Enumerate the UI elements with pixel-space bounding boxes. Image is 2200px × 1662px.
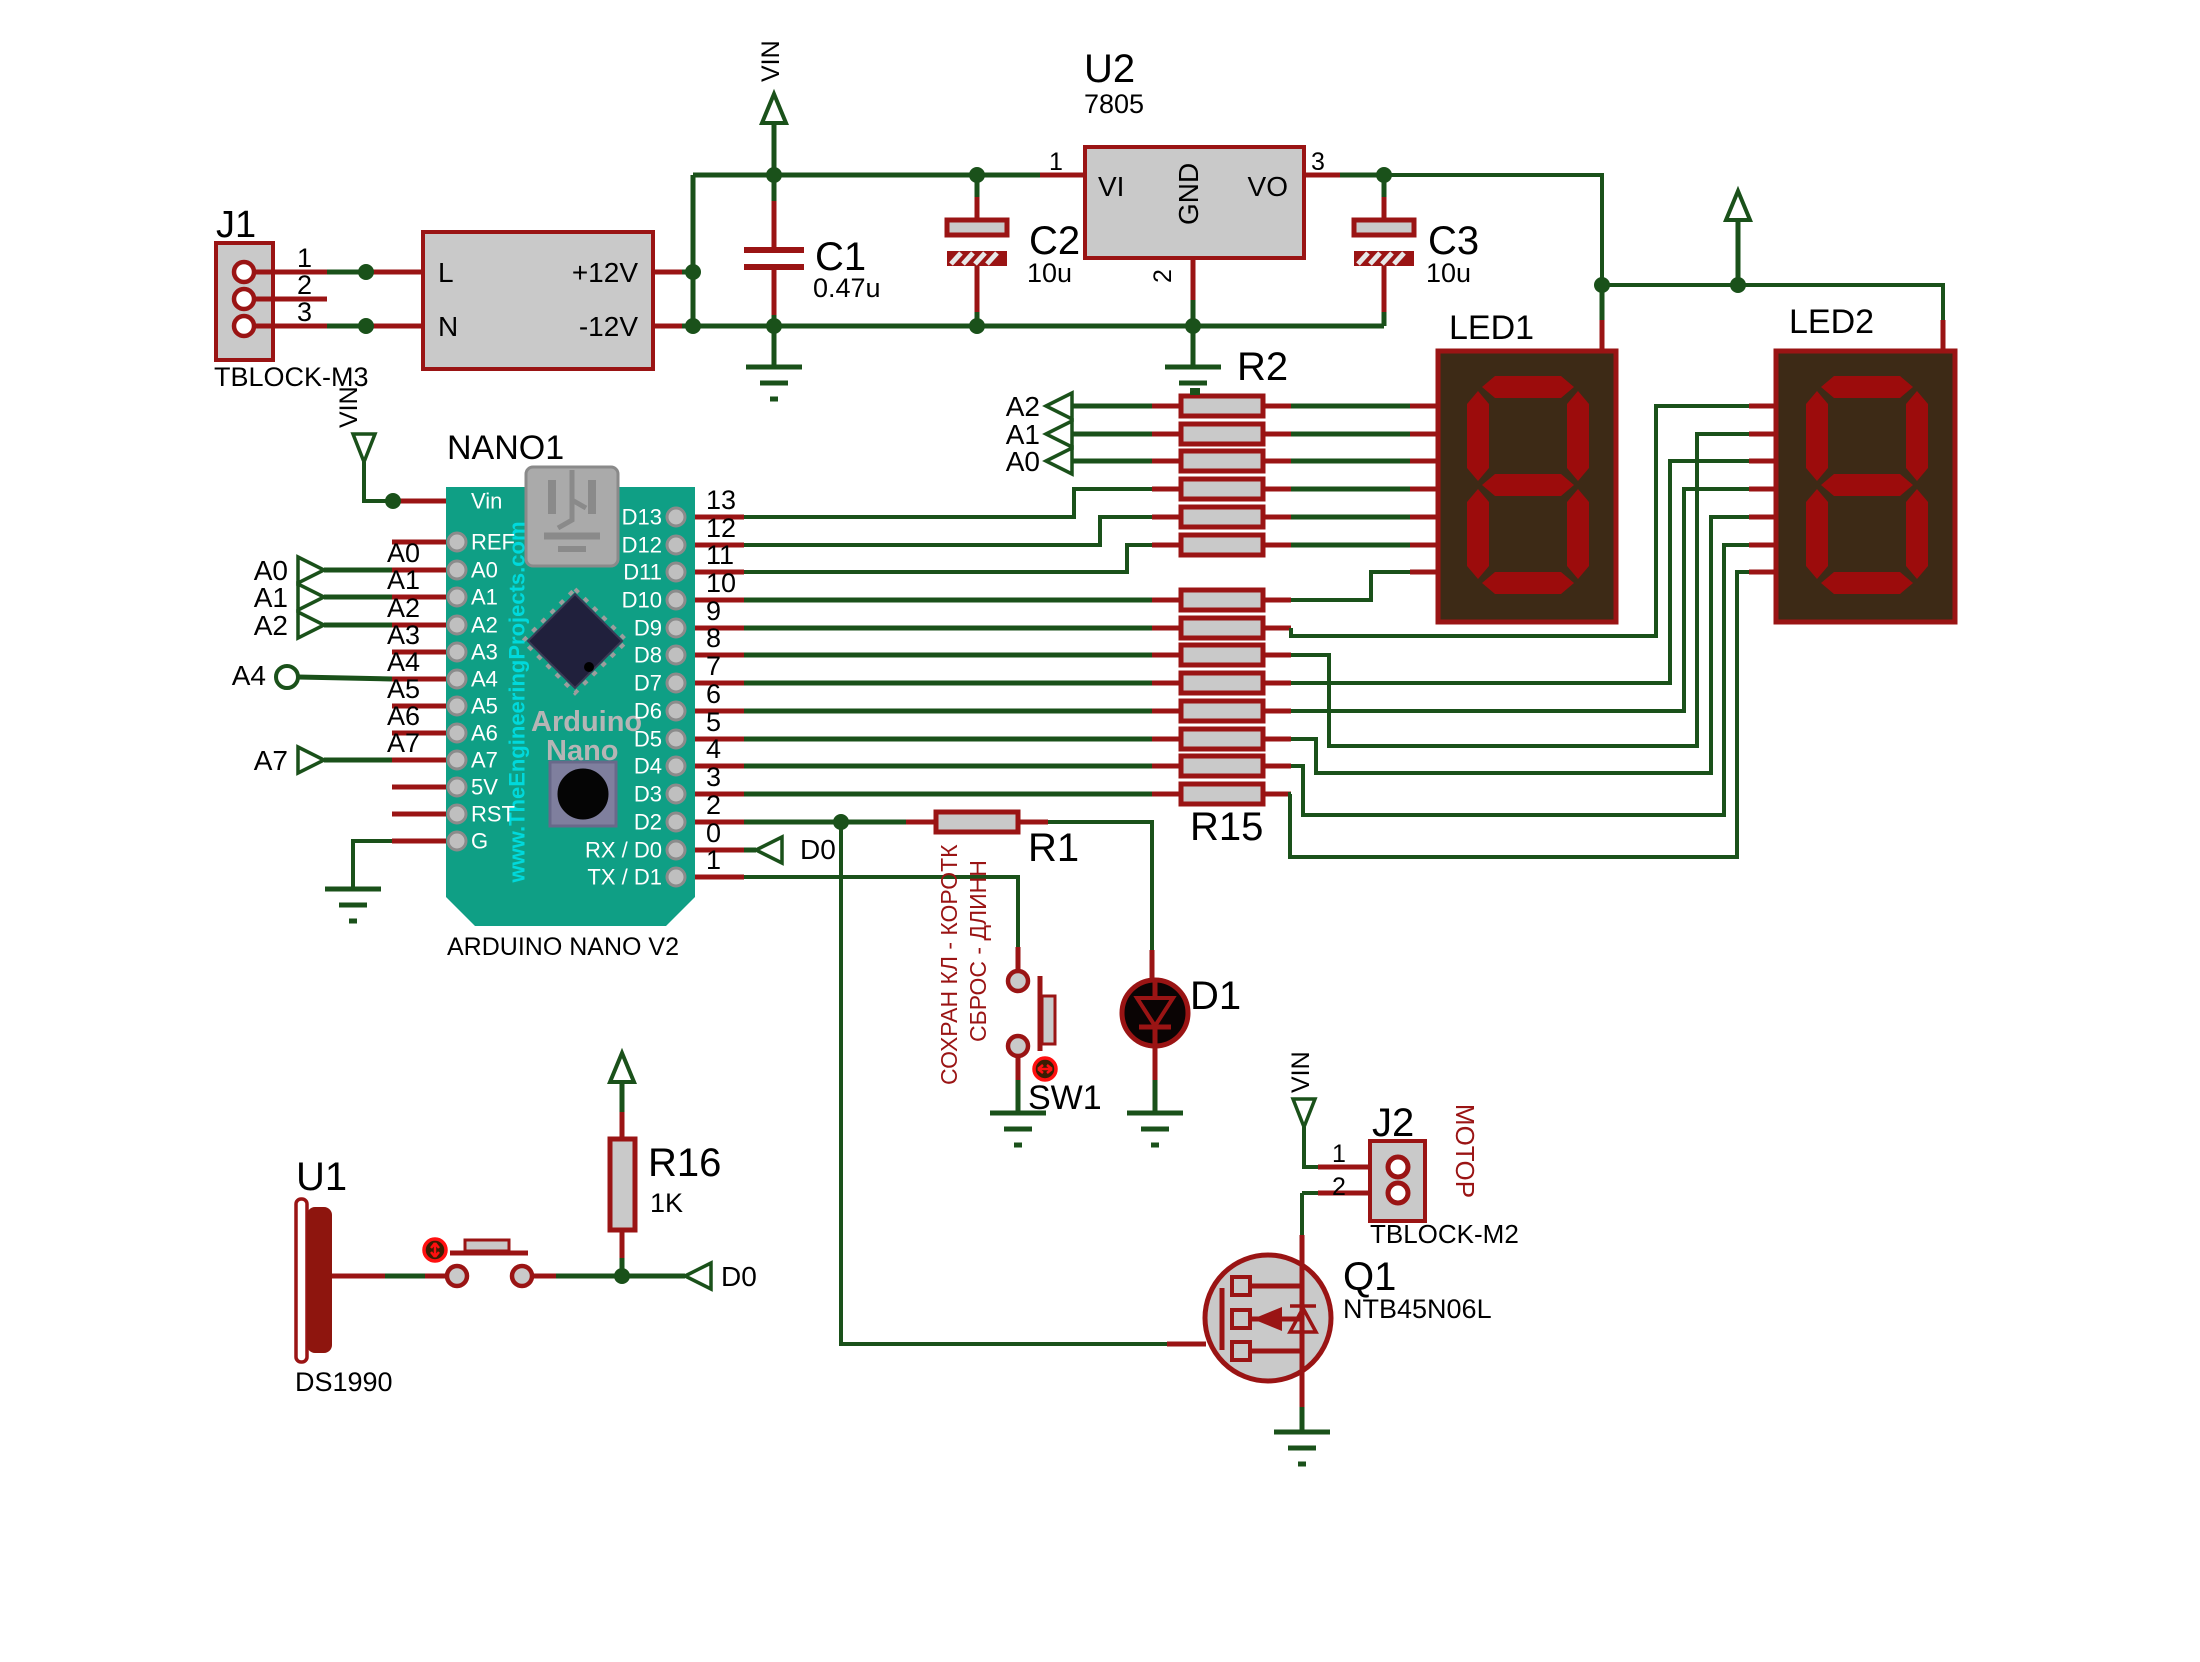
reset button graphic [550, 762, 616, 826]
switch (U1 contact) [447, 1266, 467, 1286]
display LED1 [1438, 351, 1616, 622]
svg-text:REF: REF [471, 530, 515, 555]
svg-text:8: 8 [706, 623, 721, 653]
terminal A1 (nano) [298, 584, 324, 610]
svg-text:A0: A0 [1006, 446, 1040, 477]
resistor R2 element 6 [1152, 543, 1181, 548]
wire R15-3 to LED2 seg b [1291, 434, 1749, 746]
terminal A1 [1046, 421, 1072, 447]
junction C2 top [969, 167, 985, 183]
wire R1 to D1 [1048, 822, 1152, 950]
svg-text:ARDUINO NANO V2: ARDUINO NANO V2 [447, 933, 679, 961]
wire R15-2 to LED2 seg a [1291, 406, 1749, 636]
Arduino Nano board NANO1 [446, 487, 695, 926]
svg-text:A6: A6 [387, 701, 420, 731]
svg-text:A1: A1 [254, 582, 288, 613]
wire SW1 to ground [1016, 1056, 1021, 1080]
wire +12V riser to VIN rail [691, 175, 696, 272]
ground (nano G) [325, 887, 381, 892]
capacitor C2 [975, 175, 980, 197]
junction VO / C3 [1376, 167, 1392, 183]
svg-text:-12V: -12V [579, 311, 638, 342]
capacitor C3 [1382, 175, 1387, 197]
terminal A2 [1046, 393, 1072, 419]
svg-text:10u: 10u [1027, 258, 1072, 288]
ground (Q1) [1274, 1430, 1330, 1435]
svg-text:D4: D4 [634, 754, 662, 779]
svg-text:10: 10 [706, 568, 736, 598]
svg-text:МОТОР: МОТОР [1450, 1104, 1480, 1198]
wire VIN to nano Vin [364, 462, 392, 501]
wire VIN to J2 pin1 [1304, 1127, 1318, 1167]
junction power flag [1730, 277, 1746, 293]
svg-text:0: 0 [706, 818, 721, 848]
resistor R15 element 3 [1152, 653, 1181, 658]
wire -12V / GND rail [682, 324, 1384, 329]
svg-text:A1: A1 [471, 585, 498, 610]
resistor R15 element 7 [1152, 764, 1181, 769]
wire VIN rail [693, 173, 1040, 178]
svg-text:www.TheEngineeringProjects.com: www.TheEngineeringProjects.com [505, 521, 530, 883]
svg-text:A4: A4 [232, 660, 266, 691]
resistor R15 element 4 [1152, 681, 1181, 686]
svg-text:VI: VI [1098, 171, 1124, 202]
junction D0 node [614, 1268, 630, 1284]
svg-text:1: 1 [297, 243, 312, 273]
svg-text:D9: D9 [634, 616, 662, 641]
svg-text:A4: A4 [387, 647, 420, 677]
LED D1 [1122, 980, 1188, 1046]
wire C1 ground drop [772, 326, 777, 367]
wire A7 [324, 758, 392, 763]
wires nano D13-D11 to R2 [744, 489, 1152, 517]
wire A2 [324, 623, 392, 628]
resistor R1 [906, 820, 936, 825]
resistor R2 element 2 [1152, 432, 1181, 437]
wire U2 VO output [1304, 173, 1340, 178]
svg-text:D7: D7 [634, 671, 662, 696]
wire A4 [298, 677, 392, 679]
nano right pins [667, 508, 685, 526]
svg-text:0.47u: 0.47u [813, 273, 881, 303]
junction VIN / C1 [766, 167, 782, 183]
svg-text:D11: D11 [623, 560, 662, 585]
svg-text:U1: U1 [296, 1155, 347, 1199]
svg-text:A7: A7 [471, 748, 498, 773]
resistor R15 element 2 [1152, 626, 1181, 631]
wire VO to displays [1384, 175, 1602, 285]
svg-text:J2: J2 [1372, 1101, 1414, 1145]
terminal A2 (nano) [298, 612, 324, 638]
svg-text:A0: A0 [471, 558, 498, 583]
wire D1 to ground [1153, 1046, 1158, 1080]
svg-text:2: 2 [706, 790, 721, 820]
svg-text:J1: J1 [216, 204, 256, 246]
svg-text:D3: D3 [634, 782, 662, 807]
svg-text:3: 3 [706, 762, 721, 792]
svg-text:+12V: +12V [572, 257, 638, 288]
svg-text:D1: D1 [1190, 974, 1241, 1018]
wire R15-4 to LED2 seg c [1291, 461, 1749, 683]
svg-text:D13: D13 [622, 505, 662, 530]
svg-text:9: 9 [706, 596, 721, 626]
junction +12V node [685, 264, 701, 280]
wire D2 net to Q1 gate [841, 822, 1167, 1344]
wire R15-5 to LED2 seg d [1291, 489, 1749, 711]
power flag VIN (nano) [353, 434, 375, 462]
terminal A0 [1046, 448, 1072, 474]
ground (SW1) [990, 1111, 1046, 1116]
terminal D0 (nano) [744, 848, 756, 853]
power flag (R16) [610, 1053, 634, 1082]
svg-text:4: 4 [706, 734, 721, 764]
svg-text:GND: GND [1173, 163, 1204, 225]
wire U2 ground drop [1191, 326, 1196, 367]
svg-text:D0: D0 [721, 1261, 757, 1292]
wire U2 GND pin [1191, 258, 1196, 300]
junction VO/LED1 [1594, 277, 1610, 293]
svg-text:VIN: VIN [1287, 1051, 1315, 1093]
svg-text:G: G [471, 829, 488, 854]
wires R2 outputs to LED1 [1291, 404, 1410, 409]
svg-text:D0: D0 [800, 834, 836, 865]
terminal A4 (nano) [276, 666, 298, 688]
wires nano D10-D3 to R15 [744, 598, 1152, 603]
svg-text:Arduino: Arduino [531, 706, 642, 738]
svg-text:RX / D0: RX / D0 [585, 838, 662, 863]
svg-text:2: 2 [1332, 1173, 1346, 1201]
svg-text:A0: A0 [387, 538, 420, 568]
svg-text:6: 6 [706, 679, 721, 709]
svg-text:СБРОС - ДЛИНН: СБРОС - ДЛИНН [965, 860, 991, 1042]
switch SW1 [1008, 971, 1028, 991]
resistor R2 element 5 [1152, 515, 1181, 520]
svg-text:TBLOCK-M2: TBLOCK-M2 [1370, 1219, 1519, 1249]
terminal A0 (nano) [298, 557, 324, 583]
resistor R15 element 6 [1152, 737, 1181, 742]
USB connector graphic [526, 467, 618, 566]
power flag VIN (top) [762, 94, 786, 123]
wire +5V rail to LED2 [1602, 285, 1943, 320]
svg-text:A2: A2 [1006, 391, 1040, 422]
svg-text:VIN: VIN [757, 40, 785, 82]
wire J1 pin1 to PSU L [254, 270, 327, 275]
MOSFET Q1 [1205, 1255, 1331, 1381]
svg-text:3: 3 [1311, 148, 1325, 176]
svg-text:D6: D6 [634, 699, 662, 724]
svg-text:NTB45N06L: NTB45N06L [1343, 1294, 1492, 1324]
wire A2 to R2 [1072, 404, 1152, 409]
wire switch to D0 node [532, 1274, 556, 1279]
resistor R15 element 8 [1152, 792, 1181, 797]
svg-text:A3: A3 [471, 640, 498, 665]
ground (U2) [1165, 365, 1221, 370]
svg-text:A2: A2 [471, 613, 498, 638]
svg-text:11: 11 [706, 540, 734, 570]
wire U1 to switch [332, 1274, 385, 1279]
wire D2 to R1 [744, 820, 906, 825]
svg-text:12: 12 [706, 513, 736, 543]
svg-text:7: 7 [706, 651, 721, 681]
svg-text:TX / D1: TX / D1 [587, 865, 662, 890]
svg-text:LED2: LED2 [1789, 303, 1874, 341]
svg-text:NANO1: NANO1 [447, 429, 564, 467]
power flag (displays) [1726, 191, 1750, 220]
terminal A7 (nano) [298, 747, 324, 773]
svg-text:Vin: Vin [471, 489, 502, 514]
svg-text:C3: C3 [1428, 219, 1479, 263]
LED1 segment pin stubs [1410, 404, 1438, 409]
junction J1 pin3 wire [358, 318, 374, 334]
svg-text:LED1: LED1 [1449, 309, 1534, 347]
junction Vin [385, 493, 401, 509]
svg-text:Q1: Q1 [1343, 1255, 1396, 1299]
nano left pin stubs [392, 499, 446, 504]
svg-text:A5: A5 [471, 694, 498, 719]
svg-text:C2: C2 [1029, 219, 1080, 263]
power flag VIN (J2) [1293, 1099, 1315, 1127]
svg-text:A6: A6 [471, 721, 498, 746]
wire Q1 drain [1300, 1235, 1305, 1253]
PSU transformer block [423, 232, 653, 369]
wire PSU +12V output [653, 270, 682, 275]
wire -12V riser [691, 272, 696, 326]
terminal D0 (U1) [685, 1263, 711, 1289]
svg-text:D5: D5 [634, 727, 662, 752]
wire A0 to R2 [1072, 459, 1152, 464]
svg-text:R1: R1 [1028, 826, 1079, 870]
nano right pin stubs [695, 515, 744, 520]
capacitor C1 [772, 175, 777, 201]
wire R15-7 to LED2 seg f [1291, 545, 1749, 815]
svg-text:A4: A4 [471, 667, 498, 692]
svg-text:L: L [438, 257, 454, 288]
resistor R16 [620, 1258, 625, 1276]
ground (D1) [1127, 1111, 1183, 1116]
svg-text:1K: 1K [650, 1188, 683, 1218]
svg-text:5V: 5V [471, 775, 498, 800]
svg-text:D10: D10 [622, 588, 662, 613]
svg-text:7805: 7805 [1084, 89, 1144, 119]
svg-text:1: 1 [1332, 1140, 1346, 1168]
svg-text:10u: 10u [1426, 258, 1471, 288]
svg-text:RST: RST [471, 802, 515, 827]
svg-text:R2: R2 [1237, 345, 1288, 389]
svg-text:D12: D12 [622, 533, 662, 558]
svg-text:A7: A7 [387, 728, 420, 758]
wire LED1 top pin [1600, 285, 1605, 320]
svg-text:VIN: VIN [335, 386, 363, 428]
svg-text:D8: D8 [634, 643, 662, 668]
main vertical Q1 [1300, 1253, 1305, 1383]
junction U2 GND / rail [1185, 318, 1201, 334]
resistor R15 element 1 [1152, 598, 1181, 603]
svg-text:5: 5 [706, 707, 721, 737]
wire Q1 source to ground [1300, 1381, 1305, 1407]
junction C2 bottom [969, 318, 985, 334]
ground (C1) [746, 365, 802, 370]
wire A1 to R2 [1072, 432, 1152, 437]
wire stub above R2 [1190, 388, 1200, 395]
svg-text:СОХРАН КЛ - КОРОТК: СОХРАН КЛ - КОРОТК [936, 844, 962, 1085]
svg-text:A7: A7 [254, 745, 288, 776]
resistor R2 element 1 [1152, 404, 1181, 409]
iButton U1 DS1990 [296, 1199, 307, 1362]
resistor R2 element 3 [1152, 459, 1181, 464]
wire Q1 drain to J2 pin2 [1302, 1191, 1318, 1195]
MCU chip graphic [523, 589, 627, 693]
wire R15-6 to LED2 seg e [1291, 517, 1749, 773]
wire J1 pin3 to PSU N [254, 324, 327, 329]
svg-text:1: 1 [1049, 148, 1063, 176]
wire R15-8 to LED2 seg g [1290, 572, 1749, 857]
svg-text:A2: A2 [254, 610, 288, 641]
wire A1 [324, 595, 392, 600]
svg-text:2: 2 [1149, 269, 1177, 283]
svg-text:R15: R15 [1190, 805, 1263, 849]
junction C1 / GND rail [766, 318, 782, 334]
svg-text:D2: D2 [634, 810, 662, 835]
connector J1 (TBLOCK-M3) [216, 243, 273, 360]
wire PSU -12V output [653, 324, 682, 329]
svg-text:VO: VO [1248, 171, 1288, 202]
wire A0 [324, 568, 392, 573]
wire J1 pin2 stub [254, 297, 327, 302]
junction J1 pin1 wire [358, 264, 374, 280]
svg-text:DS1990: DS1990 [295, 1367, 393, 1397]
SW1 actuator indicator [1034, 1058, 1056, 1080]
wire R15-1 to LED1 seg g [1291, 572, 1410, 600]
display LED2 [1776, 351, 1955, 622]
svg-text:N: N [438, 311, 458, 342]
junction -12V node [685, 318, 701, 334]
svg-text:1: 1 [706, 845, 721, 875]
wire TX/D1 to SW1 [744, 877, 1018, 947]
connector J2 (TBLOCK-M2) [1370, 1141, 1425, 1221]
svg-text:13: 13 [706, 485, 736, 515]
switch indicator (U1) [424, 1239, 446, 1261]
svg-text:U2: U2 [1084, 47, 1135, 91]
resistor R15 element 5 [1152, 709, 1181, 714]
svg-text:R16: R16 [648, 1141, 721, 1185]
LED2 segment pin stubs [1749, 404, 1776, 409]
resistor R2 element 4 [1152, 487, 1181, 492]
wire G to ground [353, 841, 392, 889]
junction D2 [833, 814, 849, 830]
regulator U2 7805 [1085, 147, 1304, 258]
